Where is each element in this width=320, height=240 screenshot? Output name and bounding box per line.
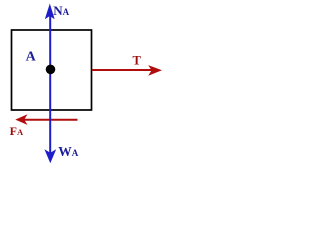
arrowhead N_A (up) bbox=[45, 4, 55, 20]
svg-text:A: A bbox=[26, 50, 37, 65]
arrowhead W_A (down) bbox=[44, 149, 56, 163]
wire: vertical blue force line (N_A / W_A shaft) bbox=[49, 15, 51, 153]
svg-text:NA: NA bbox=[53, 3, 69, 18]
node A dot bbox=[46, 65, 56, 75]
svg-text:T: T bbox=[133, 54, 142, 68]
svg-text:WA: WA bbox=[58, 144, 78, 159]
arrowhead T (right) bbox=[148, 65, 162, 76]
tension arrow T line bbox=[92, 69, 153, 71]
arrowhead F_A (left) bbox=[15, 114, 27, 125]
block (box) bbox=[12, 30, 92, 110]
svg-text:FA: FA bbox=[10, 124, 24, 138]
friction arrow F_A line bbox=[24, 119, 78, 121]
